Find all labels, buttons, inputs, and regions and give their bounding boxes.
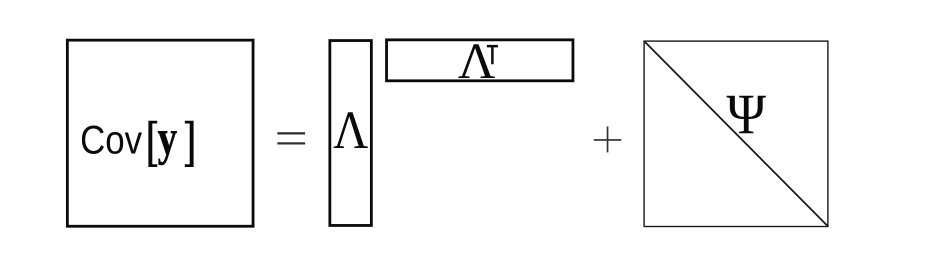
svg-text:Λ: Λ (333, 100, 368, 160)
svg-text:y: y (158, 110, 178, 166)
svg-text:Λ: Λ (458, 33, 496, 90)
svg-text:Cov: Cov (80, 119, 142, 163)
svg-text:Ψ: Ψ (727, 83, 767, 146)
